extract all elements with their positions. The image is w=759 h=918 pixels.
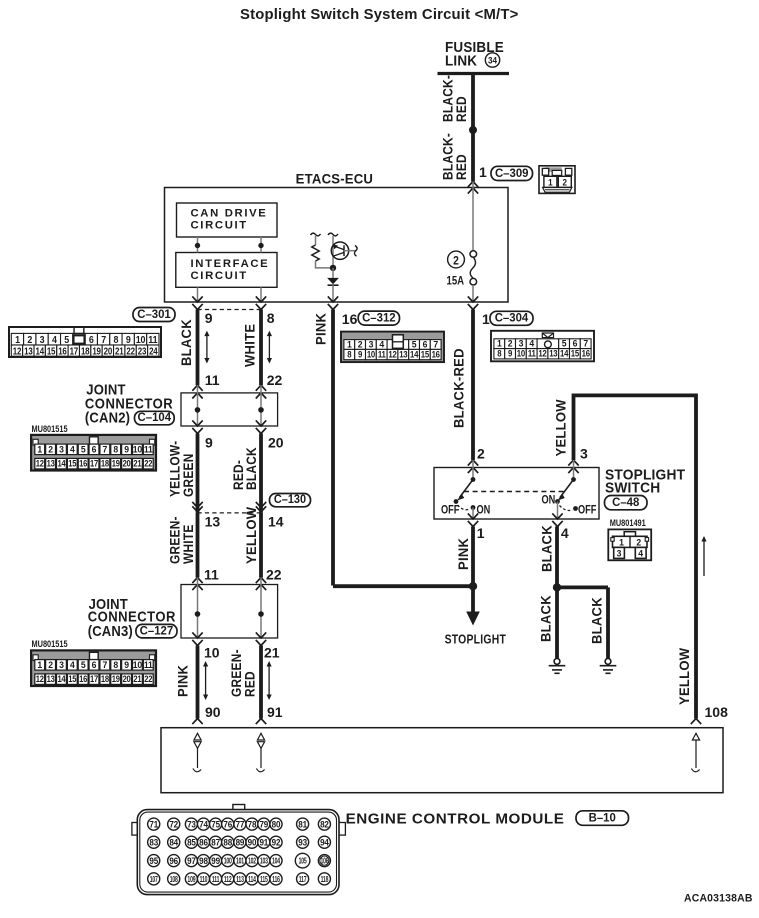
- svg-text:12: 12: [13, 346, 22, 357]
- svg-text:6: 6: [92, 444, 97, 455]
- svg-text:INTERFACE: INTERFACE: [191, 258, 270, 270]
- wire YELLOW-GREEN: [196, 434, 200, 513]
- wire RED-BLACK: [259, 434, 263, 513]
- switch S1 wire to pin 1: [472, 508, 474, 520]
- svg-text:93: 93: [298, 837, 307, 847]
- wire BLACK pin4: [555, 527, 559, 588]
- wire fuse to box bottom: [472, 285, 474, 302]
- svg-text:13: 13: [47, 458, 55, 469]
- entry chevrons pin 22 CAN3: [256, 578, 266, 584]
- svg-text:108: 108: [170, 876, 178, 884]
- svg-text:ON: ON: [541, 493, 555, 506]
- wire YELLOW horizontal top: [574, 393, 697, 397]
- svg-text:17: 17: [90, 673, 98, 684]
- svg-text:18: 18: [101, 458, 109, 469]
- svg-text:85: 85: [187, 837, 196, 847]
- svg-text:24: 24: [149, 346, 158, 357]
- svg-text:Stoplight Switch System Circui: Stoplight Switch System Circuit <M/T>: [240, 6, 519, 23]
- svg-text:88: 88: [223, 837, 232, 847]
- switch S1 left: wire to contact: [472, 460, 474, 480]
- direction arrow pin90: [205, 666, 207, 695]
- svg-text:81: 81: [298, 819, 307, 829]
- connector table MU801515 lower: [31, 650, 156, 686]
- direction arrow right pair: [268, 336, 270, 359]
- transistor Q1: [328, 233, 338, 236]
- svg-text:10: 10: [136, 334, 146, 346]
- svg-text:5: 5: [81, 444, 86, 455]
- svg-text:89: 89: [236, 837, 245, 847]
- connector table MU801515 upper: [31, 435, 156, 471]
- svg-text:C–312: C–312: [362, 311, 396, 324]
- wire GREEN-WHITE: [196, 513, 200, 578]
- svg-text:1: 1: [619, 537, 624, 548]
- svg-text:SWITCH: SWITCH: [605, 479, 660, 495]
- joint connector CAN3 box: [181, 585, 278, 639]
- node dot CAN3 left: [195, 611, 201, 617]
- wire U1-U2 left: [197, 237, 199, 253]
- wire through CAN2 right: [260, 385, 262, 426]
- svg-text:RED: RED: [453, 154, 469, 180]
- connector label C-301: [133, 308, 175, 322]
- svg-text:C–48: C–48: [612, 496, 640, 509]
- svg-text:3: 3: [40, 334, 45, 346]
- svg-text:BLACK: BLACK: [179, 319, 195, 366]
- svg-text:10: 10: [367, 349, 376, 360]
- svg-text:C–127: C–127: [140, 624, 174, 637]
- svg-text:22: 22: [126, 346, 135, 357]
- ECM buffer symbol pin91: [257, 733, 264, 740]
- direction arrow left pair: [206, 336, 208, 359]
- wire horizontal to second ground: [557, 586, 608, 590]
- svg-text:1: 1: [37, 444, 42, 455]
- svg-text:97: 97: [187, 855, 196, 865]
- wire through CAN2 left: [197, 385, 199, 426]
- exit chevrons pin 20: [256, 420, 266, 426]
- svg-text:C–130: C–130: [274, 494, 306, 506]
- svg-text:12: 12: [36, 458, 44, 469]
- svg-text:15: 15: [421, 349, 430, 360]
- svg-text:111: 111: [212, 876, 220, 884]
- svg-text:107: 107: [150, 876, 158, 884]
- ECM entry fork pin108: [691, 719, 701, 725]
- diode D1: [332, 268, 334, 278]
- connector crossing chevrons C-309 / ETACS top: [468, 182, 478, 188]
- svg-text:2: 2: [48, 444, 53, 455]
- svg-text:C–301: C–301: [137, 308, 171, 321]
- svg-text:18: 18: [81, 346, 90, 357]
- svg-text:2: 2: [453, 255, 459, 268]
- switch S1 common contact: [471, 477, 476, 482]
- svg-text:15: 15: [68, 458, 76, 469]
- connector table C-304: [491, 331, 594, 362]
- svg-text:MU801515: MU801515: [31, 639, 67, 649]
- svg-text:8: 8: [347, 349, 351, 360]
- svg-text:104: 104: [272, 858, 280, 866]
- ECM connector body: [132, 805, 346, 895]
- svg-text:78: 78: [248, 819, 257, 829]
- svg-text:(CAN3): (CAN3): [88, 623, 133, 639]
- svg-text:BLACK: BLACK: [589, 597, 605, 644]
- svg-text:22: 22: [266, 567, 282, 583]
- switch S1 OFF contact: [454, 499, 459, 504]
- svg-text:106: 106: [320, 858, 328, 866]
- svg-text:100: 100: [224, 858, 232, 866]
- direction arrow yellow: [703, 541, 705, 576]
- svg-text:96: 96: [169, 855, 178, 865]
- junction dot stoplight: [469, 582, 477, 590]
- svg-text:87: 87: [211, 837, 220, 847]
- svg-text:16: 16: [79, 458, 87, 469]
- svg-text:GREEN: GREEN: [180, 453, 196, 497]
- svg-text:22: 22: [267, 372, 283, 388]
- INTERFACE CIRCUIT box U2: [176, 253, 277, 288]
- svg-text:13: 13: [399, 349, 408, 360]
- svg-text:101: 101: [236, 858, 244, 866]
- svg-text:CAN DRIVE: CAN DRIVE: [191, 208, 268, 220]
- exit chevrons pin 10: [192, 632, 202, 638]
- wire WHITE pin8 to pin22: [259, 310, 263, 386]
- fuse F2 15A: [470, 251, 477, 258]
- connector label C-130: [270, 494, 311, 507]
- CAN DRIVE CIRCUIT box U1: [177, 203, 278, 237]
- svg-text:1: 1: [477, 525, 485, 541]
- wire PINK lower: [196, 646, 200, 719]
- svg-text:20: 20: [123, 458, 131, 469]
- wire internal to fuse: [472, 182, 474, 251]
- svg-text:90: 90: [248, 837, 257, 847]
- ground left: [554, 659, 560, 665]
- svg-text:BLACK: BLACK: [243, 447, 259, 490]
- svg-text:79: 79: [259, 819, 268, 829]
- svg-text:PINK: PINK: [313, 313, 329, 345]
- node dot CAN2 left: [195, 407, 201, 413]
- svg-text:7: 7: [101, 334, 106, 346]
- svg-text:18: 18: [101, 673, 109, 684]
- svg-text:22: 22: [144, 673, 152, 684]
- svg-text:1: 1: [15, 334, 20, 346]
- switch S2 OFF contact: [573, 506, 578, 511]
- resistor R1: [311, 233, 321, 236]
- exit chevrons pin 1 switch: [468, 513, 478, 519]
- switch S1 travel arc dashed: [458, 505, 471, 510]
- svg-text:11: 11: [148, 334, 157, 346]
- wire PINK pin1: [471, 527, 475, 587]
- svg-text:114: 114: [248, 876, 256, 884]
- svg-text:PINK: PINK: [175, 665, 191, 697]
- switch S2 right: wire to contact: [573, 460, 575, 480]
- svg-text:19: 19: [112, 673, 120, 684]
- svg-text:PINK: PINK: [456, 538, 472, 570]
- svg-text:9: 9: [205, 310, 213, 326]
- mechanical link dashed: [464, 491, 565, 493]
- svg-text:103: 103: [260, 858, 268, 866]
- connector label C-309: [491, 166, 533, 180]
- svg-text:17: 17: [90, 458, 98, 469]
- svg-text:90: 90: [205, 704, 221, 720]
- svg-text:15: 15: [571, 348, 580, 359]
- svg-text:YELLOW: YELLOW: [553, 399, 569, 456]
- svg-text:11: 11: [144, 659, 153, 670]
- entry chevrons pin 3: [568, 460, 578, 466]
- exit chevrons pin 21: [256, 632, 266, 638]
- connector C-130 chevrons right: [256, 502, 266, 508]
- svg-text:117: 117: [299, 876, 307, 884]
- svg-text:9: 9: [358, 349, 362, 360]
- wire U2 to box bottom right: [260, 287, 262, 302]
- wire to stoplight arrow: [471, 586, 475, 613]
- svg-text:16: 16: [432, 349, 441, 360]
- svg-text:14: 14: [560, 348, 569, 359]
- svg-text:20: 20: [268, 435, 284, 451]
- svg-text:116: 116: [272, 876, 280, 884]
- svg-text:21: 21: [115, 346, 124, 357]
- connector C-130 dashed line: [198, 512, 262, 514]
- svg-text:6: 6: [89, 334, 94, 346]
- svg-text:MU801491: MU801491: [610, 518, 646, 528]
- svg-text:YELLOW: YELLOW: [243, 507, 259, 564]
- svg-text:113: 113: [236, 876, 244, 884]
- node dot left: [195, 243, 200, 248]
- node dot right: [258, 243, 263, 248]
- connector C-130 chevrons left: [192, 502, 202, 508]
- connector table C-301: [9, 327, 161, 357]
- exit chevrons pin 1 C-304: [468, 296, 478, 302]
- svg-text:C–104: C–104: [138, 411, 172, 424]
- svg-text:98: 98: [199, 855, 208, 865]
- svg-text:1: 1: [548, 177, 553, 188]
- svg-text:72: 72: [169, 819, 178, 829]
- svg-text:MU801515: MU801515: [31, 424, 67, 434]
- wire through CAN3 left: [197, 578, 199, 639]
- svg-text:1: 1: [482, 311, 490, 327]
- svg-text:73: 73: [187, 819, 196, 829]
- svg-text:8: 8: [113, 444, 118, 455]
- switch S2 wire to pin 4: [557, 502, 559, 520]
- svg-text:14: 14: [410, 349, 419, 360]
- wire U1-U2 right: [260, 237, 262, 253]
- svg-text:CIRCUIT: CIRCUIT: [191, 220, 248, 232]
- connector C-301 dashed line: [198, 309, 262, 311]
- svg-text:10: 10: [133, 659, 142, 670]
- svg-text:13: 13: [47, 673, 55, 684]
- exit chevrons pin 8: [256, 296, 266, 302]
- svg-text:ACA03138AB: ACA03138AB: [684, 892, 753, 904]
- svg-text:99: 99: [211, 855, 220, 865]
- exit chevrons pin 16: [328, 296, 338, 302]
- svg-text:(CAN2): (CAN2): [85, 410, 130, 426]
- connector label C-48: [605, 496, 648, 510]
- entry chevrons pin 22: [256, 385, 266, 391]
- wire BLACK pin9 to pin11: [196, 310, 200, 386]
- switch S1 ON contact: [471, 505, 476, 510]
- stoplight switch box: [434, 468, 599, 520]
- svg-text:15: 15: [68, 673, 76, 684]
- svg-text:10: 10: [204, 645, 220, 661]
- connector table C-312: [341, 332, 444, 363]
- wire YELLOW to pin 3: [572, 394, 576, 461]
- wire PINK vertical pin16: [331, 310, 335, 586]
- node dot resistor/transistor junction: [330, 265, 336, 271]
- svg-text:108: 108: [705, 704, 729, 720]
- svg-text:WHITE: WHITE: [180, 524, 196, 564]
- svg-text:8: 8: [497, 348, 501, 359]
- svg-text:BLACK: BLACK: [539, 525, 555, 572]
- svg-text:17: 17: [70, 346, 79, 357]
- svg-text:STOPLIGHT: STOPLIGHT: [445, 632, 507, 646]
- svg-text:13: 13: [24, 346, 33, 357]
- svg-text:B–10: B–10: [589, 811, 617, 824]
- wire BLACK right ground: [606, 587, 610, 658]
- svg-text:ON: ON: [477, 503, 491, 516]
- svg-text:13: 13: [549, 348, 558, 359]
- wire YELLOW mid: [259, 513, 263, 578]
- wire BLACK left ground: [555, 587, 559, 658]
- svg-text:BLACK: BLACK: [538, 595, 554, 642]
- svg-text:9: 9: [126, 334, 131, 346]
- svg-text:16: 16: [58, 346, 67, 357]
- svg-text:3: 3: [580, 446, 588, 462]
- switch S2 lever: [560, 480, 574, 498]
- svg-text:115: 115: [260, 876, 268, 884]
- engine control module box: [161, 728, 723, 793]
- svg-text:21: 21: [133, 673, 141, 684]
- svg-text:86: 86: [199, 837, 208, 847]
- svg-text:8: 8: [267, 310, 275, 326]
- svg-text:C–309: C–309: [495, 167, 529, 180]
- svg-text:2: 2: [48, 659, 53, 670]
- joint connector CAN2 box: [181, 393, 278, 426]
- ground right: [605, 659, 611, 665]
- svg-text:C–304: C–304: [495, 311, 529, 324]
- svg-text:9: 9: [205, 435, 213, 451]
- node dot CAN2 right: [258, 407, 264, 413]
- svg-text:14: 14: [57, 458, 65, 469]
- svg-text:84: 84: [169, 837, 178, 847]
- svg-text:94: 94: [320, 837, 329, 847]
- svg-text:92: 92: [272, 837, 281, 847]
- wire BLACK-RED to switch: [471, 310, 475, 461]
- connector label C-312: [358, 311, 399, 325]
- svg-text:102: 102: [248, 858, 256, 866]
- svg-text:RED: RED: [241, 671, 257, 697]
- switch S1 lever: [460, 480, 474, 498]
- node dot CAN3 right: [258, 611, 264, 617]
- svg-text:2: 2: [27, 334, 32, 346]
- svg-text:91: 91: [267, 704, 283, 720]
- wire GREEN-RED: [259, 646, 263, 719]
- svg-text:20: 20: [104, 346, 113, 357]
- svg-text:71: 71: [149, 819, 158, 829]
- svg-text:14: 14: [268, 514, 284, 530]
- junction dot ground split: [553, 583, 561, 591]
- ECM buffer symbol pin90: [194, 733, 201, 740]
- svg-text:5: 5: [81, 659, 86, 670]
- svg-text:12: 12: [388, 349, 397, 360]
- svg-text:11: 11: [204, 567, 219, 583]
- svg-text:BLACK-RED: BLACK-RED: [451, 348, 467, 428]
- svg-text:15: 15: [47, 346, 56, 357]
- svg-text:80: 80: [272, 819, 281, 829]
- svg-text:7: 7: [103, 444, 108, 455]
- svg-text:82: 82: [320, 819, 329, 829]
- svg-text:CIRCUIT: CIRCUIT: [191, 270, 248, 282]
- svg-text:91: 91: [259, 837, 268, 847]
- ECM buffer symbol pin108: [692, 733, 699, 740]
- svg-text:74: 74: [199, 819, 208, 829]
- svg-text:95: 95: [149, 855, 158, 865]
- svg-text:12: 12: [36, 673, 44, 684]
- connector label C-304: [490, 311, 533, 325]
- svg-text:9: 9: [124, 444, 129, 455]
- svg-text:110: 110: [200, 876, 208, 884]
- svg-text:WHITE: WHITE: [242, 324, 258, 367]
- svg-text:77: 77: [236, 819, 245, 829]
- svg-text:15A: 15A: [447, 274, 465, 287]
- svg-text:16: 16: [342, 311, 358, 327]
- svg-text:23: 23: [138, 346, 147, 357]
- svg-text:109: 109: [187, 876, 195, 884]
- fuse number circle 2: [448, 251, 465, 268]
- svg-text:RED: RED: [453, 96, 469, 122]
- svg-text:3: 3: [59, 659, 64, 670]
- svg-text:16: 16: [582, 348, 591, 359]
- ETACS-ECU box: [165, 188, 509, 303]
- svg-text:1: 1: [479, 164, 487, 180]
- svg-text:76: 76: [223, 819, 232, 829]
- svg-text:4: 4: [561, 525, 569, 541]
- svg-text:ENGINE CONTROL MODULE: ENGINE CONTROL MODULE: [346, 811, 565, 828]
- svg-text:21: 21: [264, 645, 280, 661]
- svg-text:19: 19: [92, 346, 101, 357]
- ECM entry fork pin91: [256, 719, 266, 725]
- connector label C-104: [135, 411, 175, 425]
- svg-text:7: 7: [103, 659, 108, 670]
- wire BLACK-RED vertical from fusible link: [471, 74, 475, 182]
- fusible link bus bar: [438, 72, 510, 75]
- switch S2 travel arc dashed: [560, 506, 573, 511]
- svg-text:112: 112: [224, 876, 232, 884]
- svg-text:OFF: OFF: [441, 503, 460, 516]
- svg-text:2: 2: [636, 537, 641, 548]
- svg-text:11: 11: [528, 348, 536, 359]
- connector label C-127: [136, 624, 177, 638]
- svg-text:2: 2: [563, 177, 568, 188]
- svg-text:118: 118: [321, 876, 329, 884]
- svg-text:12: 12: [538, 348, 547, 359]
- connector icon C-309: [539, 166, 575, 194]
- connector icon MU801491: [608, 529, 651, 560]
- svg-text:3: 3: [617, 548, 622, 559]
- svg-text:22: 22: [144, 458, 152, 469]
- svg-text:8: 8: [114, 334, 119, 346]
- svg-text:75: 75: [211, 819, 220, 829]
- svg-text:2: 2: [477, 446, 485, 462]
- exit chevrons pin 9 lower: [192, 420, 202, 426]
- wire PINK horizontal: [333, 584, 473, 588]
- svg-text:34: 34: [488, 55, 497, 66]
- svg-text:YELLOW: YELLOW: [677, 648, 693, 705]
- connector label B-10: [576, 811, 629, 826]
- svg-text:11: 11: [144, 444, 153, 455]
- svg-text:3: 3: [59, 444, 64, 455]
- fusible link number 34: [485, 53, 499, 67]
- ECM entry fork pin90: [192, 719, 202, 725]
- svg-text:ETACS-ECU: ETACS-ECU: [296, 171, 373, 186]
- entry chevrons pin 11: [192, 385, 202, 391]
- switch S2 ON contact: [555, 499, 560, 504]
- svg-text:8: 8: [113, 659, 118, 670]
- svg-text:OFF: OFF: [578, 503, 597, 516]
